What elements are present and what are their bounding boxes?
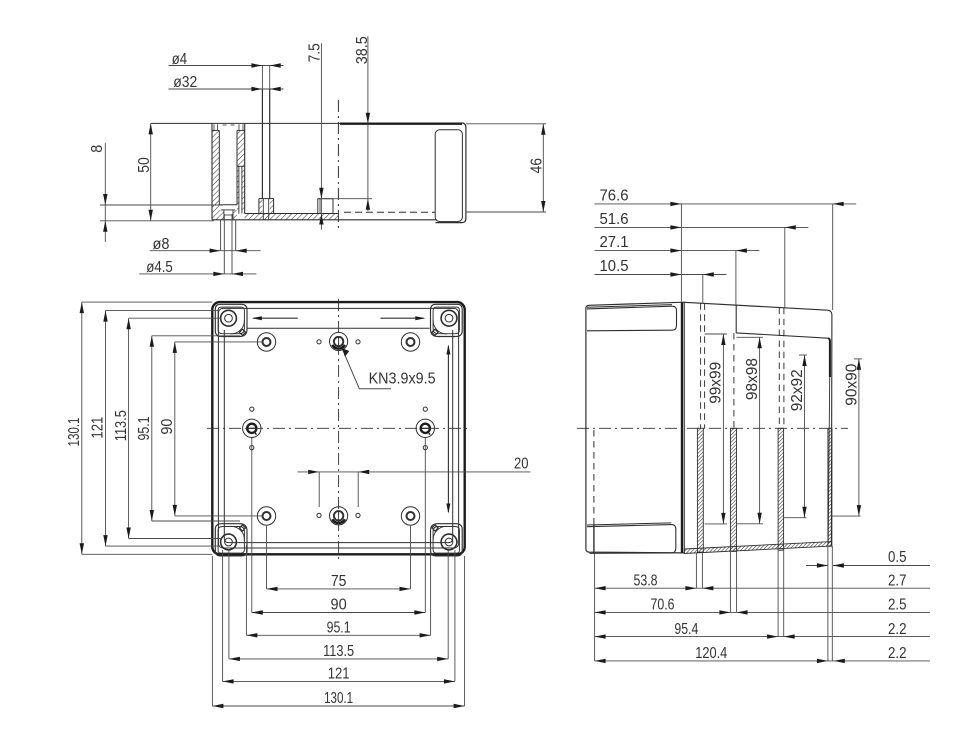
box top edge bbox=[684, 302, 827, 310]
KN boss top bbox=[330, 332, 348, 350]
svg-text:95.1: 95.1 bbox=[327, 620, 351, 637]
svg-text:95.4: 95.4 bbox=[674, 621, 698, 638]
floor band hatched bbox=[684, 542, 831, 554]
svg-text:98x98: 98x98 bbox=[744, 358, 761, 400]
dim 76.6 bbox=[595, 203, 857, 205]
svg-text:KN3.9x9.5: KN3.9x9.5 bbox=[369, 370, 436, 387]
dim 92x92 bbox=[804, 355, 806, 518]
bottom dim 113.5 bbox=[228, 550, 230, 659]
svg-text:51.6: 51.6 bbox=[600, 211, 629, 228]
boss rim lines bbox=[212, 130, 219, 132]
corner pod TR bbox=[431, 304, 463, 336]
boss wall hatch bbox=[212, 131, 219, 220]
svg-text:130.1: 130.1 bbox=[324, 690, 353, 707]
bottom dim 130.1 bbox=[211, 556, 213, 706]
section view: top surface line bbox=[151, 122, 340, 124]
svg-text:38.5: 38.5 bbox=[354, 36, 371, 64]
svg-text:50: 50 bbox=[136, 157, 153, 173]
svg-text:121: 121 bbox=[90, 417, 107, 439]
dim 98x98 bbox=[759, 337, 761, 524]
right view centerline bbox=[577, 427, 848, 429]
dim 10.5 bbox=[595, 274, 727, 276]
dim 99x99 bbox=[722, 334, 724, 524]
svg-text:27.1: 27.1 bbox=[600, 234, 629, 251]
top dim ext lines bbox=[680, 204, 682, 302]
inner sleeve bbox=[238, 166, 240, 213]
svg-text:ø4.5: ø4.5 bbox=[146, 259, 173, 276]
svg-text:20: 20 bbox=[514, 455, 529, 472]
svg-text:130.1: 130.1 bbox=[66, 417, 83, 446]
svg-text:90: 90 bbox=[331, 597, 347, 614]
svg-text:10.5: 10.5 bbox=[600, 258, 629, 275]
svg-text:70.6: 70.6 bbox=[651, 597, 675, 614]
boss seat bbox=[219, 204, 237, 206]
dim 46 bbox=[466, 123, 546, 125]
dim 20 bbox=[298, 471, 531, 473]
left dim 113.5 bbox=[128, 318, 130, 538]
small boss 2 (unhatched) bbox=[318, 198, 333, 200]
screw hole below boss bbox=[220, 220, 222, 251]
svg-text:2.5: 2.5 bbox=[888, 597, 907, 614]
svg-text:ø8: ø8 bbox=[153, 236, 170, 253]
bottom dim 95.1 bbox=[245, 545, 247, 635]
svg-text:75: 75 bbox=[331, 573, 347, 590]
pillar boss hatched bbox=[259, 198, 274, 200]
svg-text:90: 90 bbox=[159, 419, 176, 435]
lid hidden dashes bbox=[593, 430, 595, 525]
boss outer walls bbox=[211, 123, 213, 219]
KN boss bottom bbox=[330, 507, 348, 525]
dim 8 left bbox=[104, 143, 106, 242]
dim o4.5 bbox=[139, 273, 256, 275]
hidden edge dashed bbox=[344, 211, 435, 213]
svg-text:113.5: 113.5 bbox=[323, 643, 354, 660]
svg-text:0.5: 0.5 bbox=[888, 549, 907, 566]
middle screw right bbox=[416, 419, 434, 437]
bottom dim 121 bbox=[222, 550, 224, 681]
bottom dim 75 bbox=[266, 526, 268, 589]
plan centerlines bbox=[338, 299, 340, 560]
middle screw left bbox=[243, 419, 261, 437]
box step edge 2 bbox=[735, 305, 737, 333]
dim 7.5 bbox=[320, 43, 322, 229]
dim 95.4 / 2.2 bbox=[595, 636, 930, 638]
pillar (snap rivet) bbox=[261, 66, 263, 90]
svg-text:8: 8 bbox=[89, 145, 106, 153]
dim o4 bbox=[169, 65, 284, 67]
svg-text:92x92: 92x92 bbox=[789, 369, 806, 411]
plan parting line bbox=[218, 308, 458, 548]
svg-text:120.4: 120.4 bbox=[695, 645, 727, 662]
small pilot holes bbox=[317, 340, 321, 344]
dim 50 left bbox=[150, 123, 152, 220]
hatched walls below centerline bbox=[697, 428, 703, 552]
svg-text:2.7: 2.7 bbox=[888, 572, 907, 589]
dim 70.6 / 2.5 bbox=[595, 611, 930, 613]
plan outer box bbox=[212, 302, 464, 554]
left dim 95.1 bbox=[151, 336, 153, 521]
dim 51.6 bbox=[595, 226, 809, 228]
svg-text:2.2: 2.2 bbox=[888, 621, 907, 638]
dim 53.8 / 2.7 bbox=[595, 587, 930, 589]
hidden walls above centerline bbox=[700, 303, 702, 428]
dim 0.5 bbox=[806, 565, 828, 567]
inner face top line bbox=[248, 327, 430, 329]
plate hatch bbox=[245, 214, 339, 220]
left dim 130.1 bbox=[81, 302, 83, 554]
left dim 121 bbox=[105, 311, 107, 546]
svg-text:2.2: 2.2 bbox=[888, 645, 907, 662]
corner pod BL bbox=[215, 524, 247, 556]
svg-text:121: 121 bbox=[328, 666, 350, 683]
plan inner line left/bottom/right bbox=[224, 330, 452, 543]
svg-text:ø32: ø32 bbox=[173, 74, 197, 91]
vertical double arrow right bbox=[447, 346, 449, 512]
lid bottom rail bbox=[587, 525, 676, 554]
svg-text:76.6: 76.6 bbox=[600, 187, 629, 204]
lid top rail bbox=[587, 306, 677, 331]
dim 90x90 bbox=[858, 359, 860, 516]
svg-text:113.5: 113.5 bbox=[113, 410, 130, 441]
centerline section bbox=[337, 100, 339, 230]
dim o32 bbox=[169, 88, 284, 90]
ext verticals below floor bbox=[594, 554, 596, 662]
svg-text:46: 46 bbox=[529, 158, 546, 174]
svg-text:53.8: 53.8 bbox=[634, 572, 658, 589]
dim 38.5 bbox=[367, 36, 369, 211]
KN leader bbox=[344, 354, 391, 389]
dim o8 bbox=[150, 250, 261, 252]
left dim 90 bbox=[174, 342, 176, 516]
bottom dim 90 bbox=[251, 438, 253, 613]
svg-text:95.1: 95.1 bbox=[136, 416, 153, 440]
svg-text:90x90: 90x90 bbox=[843, 364, 860, 406]
corner pod BR bbox=[431, 524, 463, 556]
lid outline bbox=[586, 302, 684, 553]
plate top and bottom bbox=[245, 213, 339, 215]
svg-text:99x99: 99x99 bbox=[708, 362, 725, 404]
svg-text:ø4: ø4 bbox=[172, 51, 187, 68]
svg-text:7.5: 7.5 bbox=[307, 43, 324, 62]
corner pod TL bbox=[215, 304, 247, 336]
section view: right box outline bbox=[436, 123, 466, 223]
slide arrows top bbox=[254, 317, 298, 319]
dim 120.4 / 2.2 bbox=[595, 660, 930, 662]
dim 27.1 bbox=[595, 250, 760, 252]
boss row holes bbox=[257, 333, 275, 351]
